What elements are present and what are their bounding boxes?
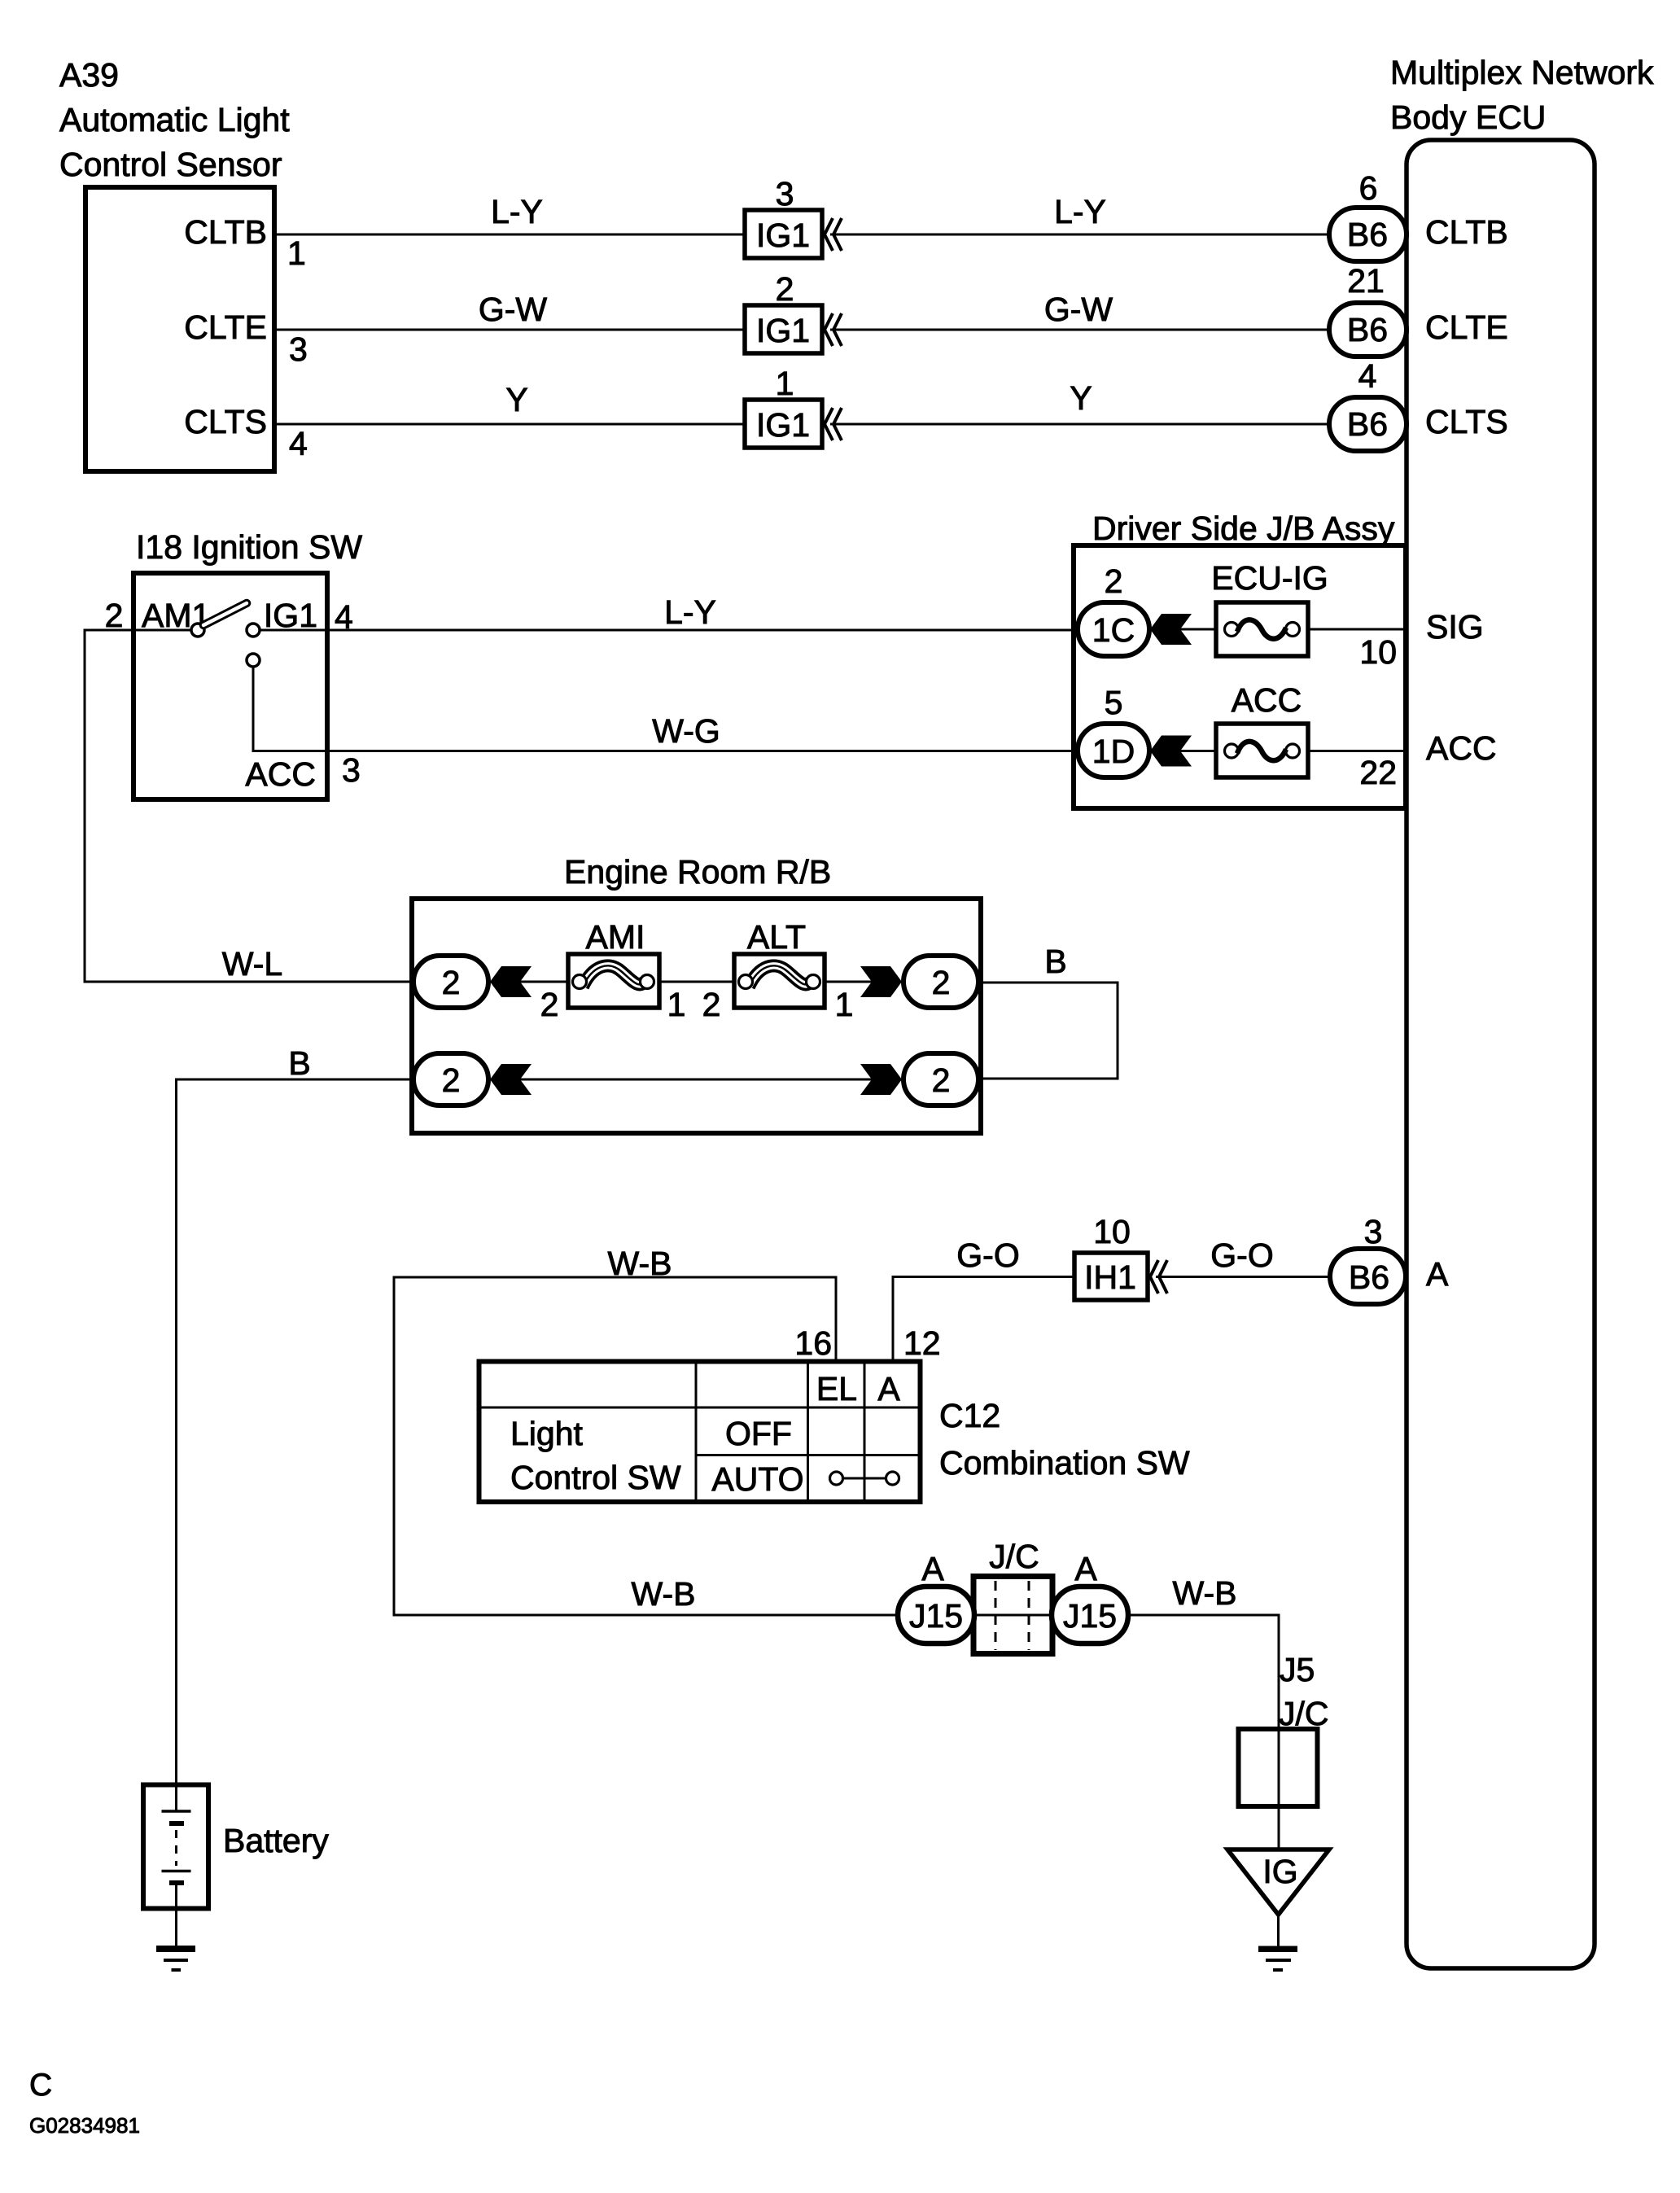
connector B6 pin 21 oval xyxy=(1329,303,1407,357)
contact AM1 xyxy=(191,624,204,637)
table column line 1 xyxy=(695,1361,698,1502)
svg-text:Body ECU: Body ECU xyxy=(1390,98,1546,136)
junction chevrons IG1 row2 xyxy=(825,313,842,346)
svg-text:2: 2 xyxy=(932,964,951,1001)
wire arrow to ACC fuse xyxy=(1180,750,1216,752)
battery plate short thick top xyxy=(169,1821,184,1826)
svg-text:ALT: ALT xyxy=(747,918,806,956)
junction chevrons IH1 xyxy=(1150,1260,1167,1293)
svg-text:Driver Side J/B Assy: Driver Side J/B Assy xyxy=(1092,510,1395,547)
svg-text:L-Y: L-Y xyxy=(664,593,716,631)
wire row2 internal xyxy=(520,1079,873,1081)
junction connector J/C (J15) box xyxy=(973,1577,1052,1654)
wire CLTE A39 to IG1 xyxy=(274,329,745,331)
wire arrow to AMI fuse xyxy=(520,981,568,983)
switch lever xyxy=(203,603,247,625)
fuse ECU-IG xyxy=(1216,602,1308,656)
svg-text:3: 3 xyxy=(342,751,361,789)
arrow row2 right xyxy=(860,1064,902,1095)
switch contact AUTO row xyxy=(830,1472,899,1485)
svg-text:22: 22 xyxy=(1359,754,1397,791)
wire W-B net (pin16 up over and down to J15) xyxy=(394,1277,898,1615)
svg-text:2: 2 xyxy=(776,270,794,308)
fuse ACC xyxy=(1216,724,1308,777)
svg-text:B6: B6 xyxy=(1347,405,1388,443)
wire pin12 to IH1 (G-O) xyxy=(893,1277,1074,1363)
svg-text:G-O: G-O xyxy=(956,1237,1019,1274)
contact ACC xyxy=(247,654,260,667)
svg-text:SIG: SIG xyxy=(1426,608,1484,646)
svg-text:A: A xyxy=(921,1550,944,1587)
switch C12 combination SW table box xyxy=(479,1362,921,1503)
battery dashed center xyxy=(175,1830,177,1866)
arrow row1 right xyxy=(860,966,902,997)
fusible link AMI xyxy=(568,954,659,1008)
ECU Multiplex Network Body ECU box xyxy=(1407,140,1595,1968)
connector IG1 pin 2 box xyxy=(745,305,822,353)
svg-text:A39: A39 xyxy=(59,56,119,94)
table row line 2 xyxy=(696,1454,920,1456)
svg-text:W-B: W-B xyxy=(632,1575,696,1613)
svg-text:AUTO: AUTO xyxy=(711,1460,803,1498)
svg-text:G-O: G-O xyxy=(1210,1237,1273,1274)
svg-text:1: 1 xyxy=(835,986,854,1023)
connector A39 Automatic Light Control Sensor box xyxy=(85,187,274,471)
svg-text:J15: J15 xyxy=(1063,1597,1117,1635)
svg-text:L-Y: L-Y xyxy=(491,193,543,230)
svg-text:B: B xyxy=(288,1044,310,1082)
wire IG1 to B6 CLTS xyxy=(830,423,1330,426)
svg-text:Control SW: Control SW xyxy=(510,1459,681,1496)
connector 2 oval row1 right xyxy=(903,956,978,1008)
svg-text:J/C: J/C xyxy=(989,1538,1039,1575)
svg-text:B6: B6 xyxy=(1349,1258,1389,1296)
svg-text:CLTE: CLTE xyxy=(1425,309,1508,346)
svg-text:Y: Y xyxy=(505,381,527,418)
svg-text:1C: 1C xyxy=(1092,611,1135,649)
ground triangle IG xyxy=(1227,1849,1329,1915)
table column line 2 xyxy=(807,1361,809,1502)
label C12 Combination SW xyxy=(939,1397,1190,1482)
connector B6 pin 4 oval xyxy=(1329,397,1407,451)
connector B6 pin 3 oval xyxy=(1330,1249,1406,1304)
wire AMI to ALT xyxy=(659,981,734,983)
svg-text:16: 16 xyxy=(794,1324,832,1362)
arrow into 1D xyxy=(1150,736,1192,767)
connector 2 oval row2 right xyxy=(903,1053,978,1105)
table label Light Control SW xyxy=(510,1415,681,1496)
svg-text:6: 6 xyxy=(1359,169,1378,207)
svg-text:Battery: Battery xyxy=(223,1822,329,1859)
svg-text:G02834981: G02834981 xyxy=(29,2113,140,2138)
wire IG1 to B6 CLTE xyxy=(830,329,1330,331)
arrow into 1C xyxy=(1150,614,1192,645)
svg-text:J5: J5 xyxy=(1280,1651,1315,1688)
svg-text:C: C xyxy=(29,2068,52,2103)
svg-text:W-G: W-G xyxy=(652,712,720,750)
svg-text:W-B: W-B xyxy=(1173,1574,1237,1612)
svg-text:10: 10 xyxy=(1093,1213,1131,1250)
svg-text:CLTS: CLTS xyxy=(1425,403,1508,440)
svg-text:L-Y: L-Y xyxy=(1054,193,1106,230)
svg-text:A: A xyxy=(1074,1550,1097,1587)
wire IG1 to JB 1C (L-Y) xyxy=(260,629,1078,632)
ECU title Multiplex Network Body ECU xyxy=(1390,54,1654,136)
svg-text:Y: Y xyxy=(1070,379,1092,417)
svg-text:B6: B6 xyxy=(1347,216,1388,253)
junction connector J5 J/C box xyxy=(1239,1729,1318,1806)
wire IG triangle to ground xyxy=(1277,1915,1280,1946)
connector IH1 box xyxy=(1074,1253,1148,1300)
svg-text:Control Sensor: Control Sensor xyxy=(59,146,282,183)
svg-text:ACC: ACC xyxy=(245,755,316,793)
svg-text:4: 4 xyxy=(289,425,308,462)
svg-text:12: 12 xyxy=(903,1324,941,1362)
svg-text:IG1: IG1 xyxy=(756,312,810,349)
connector A39 title xyxy=(59,56,290,183)
svg-text:G-W: G-W xyxy=(479,291,548,328)
svg-text:3: 3 xyxy=(776,175,794,212)
svg-text:3: 3 xyxy=(1364,1213,1383,1250)
svg-text:AMI: AMI xyxy=(586,918,645,956)
wire arrow to ECU-IG fuse xyxy=(1180,628,1216,631)
wire B to battery xyxy=(177,1079,414,1784)
svg-text:W-L: W-L xyxy=(222,945,282,983)
svg-text:3: 3 xyxy=(289,330,308,368)
wire ALT to arrow row1 right xyxy=(825,981,873,983)
svg-text:5: 5 xyxy=(1105,684,1123,721)
battery plate short thick bottom xyxy=(169,1880,184,1885)
svg-text:2: 2 xyxy=(442,964,461,1001)
svg-text:OFF: OFF xyxy=(725,1415,792,1452)
svg-text:1: 1 xyxy=(776,365,794,402)
svg-text:W-B: W-B xyxy=(608,1245,672,1282)
wire AM1 exit left xyxy=(85,630,413,982)
svg-text:IG1: IG1 xyxy=(756,406,810,444)
wire ACC contact to JB 1D (W-G) xyxy=(253,667,1078,751)
connector B6 pin 6 oval xyxy=(1329,208,1407,261)
connector IG1 pin 1 box xyxy=(745,400,822,448)
fusible link ALT xyxy=(734,954,825,1008)
wire IH1 to B6 pin 3 (G-O) xyxy=(1156,1276,1330,1278)
svg-text:CLTB: CLTB xyxy=(1425,213,1508,251)
battery box xyxy=(143,1785,208,1909)
svg-text:CLTE: CLTE xyxy=(184,309,267,346)
svg-text:2: 2 xyxy=(540,986,559,1023)
junction chevrons IG1 row1 xyxy=(825,218,842,251)
svg-text:1: 1 xyxy=(287,234,306,272)
table column line 3 xyxy=(864,1361,866,1502)
svg-text:IH1: IH1 xyxy=(1084,1258,1136,1296)
connector 2 oval row2 left xyxy=(413,1053,488,1105)
svg-text:ACC: ACC xyxy=(1426,729,1497,767)
battery plate long bottom xyxy=(162,1870,191,1873)
svg-text:EL: EL xyxy=(816,1370,857,1407)
svg-text:21: 21 xyxy=(1347,262,1385,300)
wire CLTS A39 to IG1 xyxy=(274,423,745,426)
ground symbol (IG) xyxy=(1258,1946,1297,1971)
svg-text:CLTB: CLTB xyxy=(184,213,267,251)
wire ACC fuse to ECU ACC xyxy=(1308,750,1407,752)
svg-text:1D: 1D xyxy=(1092,733,1135,770)
svg-text:2: 2 xyxy=(1105,562,1123,600)
svg-text:Engine Room R/B: Engine Room R/B xyxy=(564,853,831,891)
svg-text:Light: Light xyxy=(510,1415,584,1452)
svg-text:2: 2 xyxy=(105,597,124,634)
battery plate long top xyxy=(162,1810,191,1813)
svg-text:ACC: ACC xyxy=(1232,681,1302,719)
wire B loop right side xyxy=(978,983,1118,1079)
wire ECU-IG fuse to ECU SIG xyxy=(1308,628,1407,631)
svg-text:CLTS: CLTS xyxy=(184,403,267,440)
svg-text:4: 4 xyxy=(1358,357,1377,395)
connector 2 oval row1 left xyxy=(413,956,488,1008)
svg-text:C12: C12 xyxy=(939,1397,1000,1434)
wire IG1 to B6 CLTB xyxy=(830,234,1330,236)
connector IG1 pin 3 box xyxy=(745,210,822,258)
battery internal wire bottom and to ground xyxy=(175,1883,177,1946)
svg-text:I18 Ignition SW: I18 Ignition SW xyxy=(136,528,362,566)
svg-text:IG: IG xyxy=(1262,1853,1297,1890)
connector J15 right oval xyxy=(1052,1587,1128,1644)
svg-text:Combination SW: Combination SW xyxy=(939,1444,1190,1482)
relay block Engine Room R/B box xyxy=(412,899,981,1133)
junction chevrons IG1 row3 xyxy=(825,408,842,440)
svg-text:IG1: IG1 xyxy=(264,597,317,634)
ground symbol (battery) xyxy=(156,1946,195,1970)
junction block Driver Side J/B Assy box xyxy=(1074,545,1406,808)
svg-text:G-W: G-W xyxy=(1044,291,1113,328)
battery internal wire top xyxy=(175,1784,177,1811)
arrow row2 left xyxy=(490,1064,532,1095)
svg-text:1: 1 xyxy=(667,986,686,1023)
svg-text:10: 10 xyxy=(1359,633,1397,671)
svg-text:2: 2 xyxy=(702,986,721,1023)
wire CLTB A39 to IG1 xyxy=(274,234,745,236)
switch I18 Ignition SW box xyxy=(133,573,327,799)
wire J15 right to J5 J/C (W-B) xyxy=(1128,1615,1279,1849)
connector 1D oval xyxy=(1078,724,1149,777)
svg-text:ECU-IG: ECU-IG xyxy=(1211,559,1328,597)
svg-text:A: A xyxy=(877,1370,900,1407)
svg-text:IG1: IG1 xyxy=(756,217,810,254)
svg-text:Automatic Light: Automatic Light xyxy=(59,101,290,138)
svg-text:2: 2 xyxy=(442,1061,461,1099)
svg-text:J15: J15 xyxy=(909,1597,963,1635)
contact IG1 xyxy=(247,624,260,637)
table row line 1 xyxy=(479,1407,920,1409)
connector 1C oval xyxy=(1078,602,1149,656)
svg-text:Multiplex Network: Multiplex Network xyxy=(1390,54,1654,91)
svg-text:A: A xyxy=(1426,1255,1449,1293)
arrow row1 left xyxy=(490,966,532,997)
svg-text:B: B xyxy=(1044,943,1066,980)
svg-text:2: 2 xyxy=(932,1061,951,1099)
connector J15 left oval xyxy=(898,1587,974,1644)
svg-text:B6: B6 xyxy=(1347,311,1388,348)
